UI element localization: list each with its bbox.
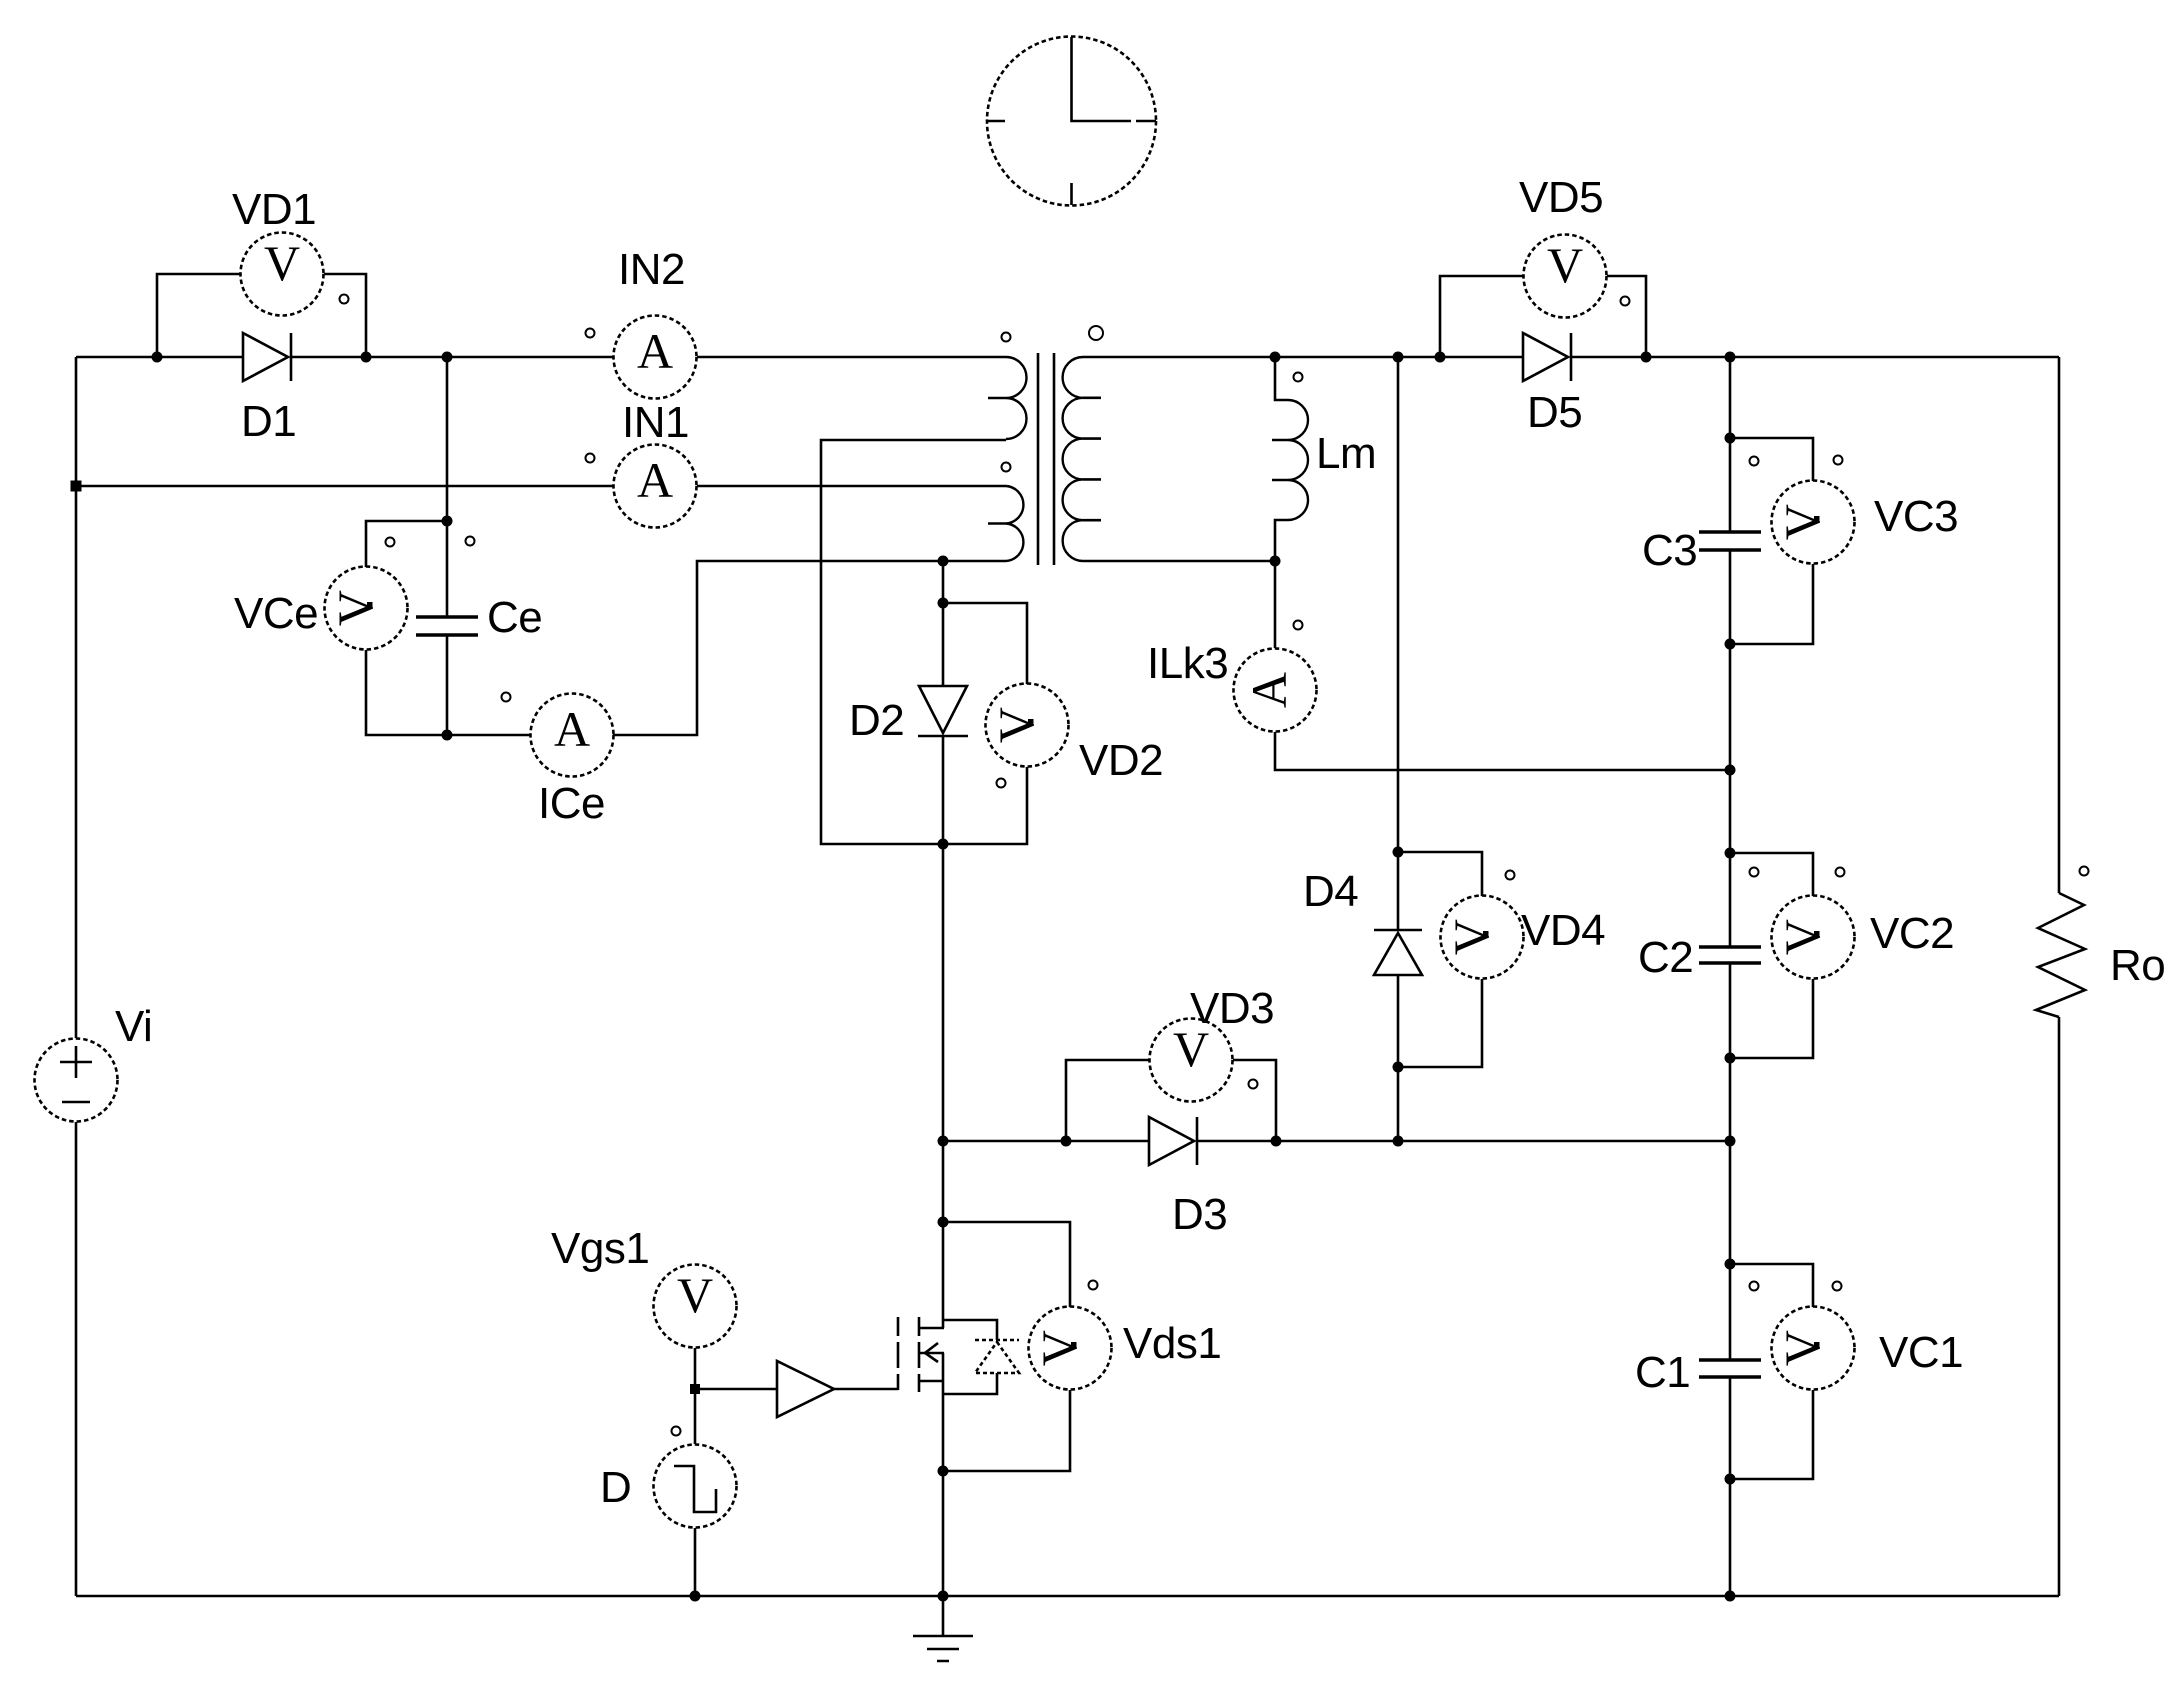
svg-text:D1: D1 [241,397,296,446]
wire VD1 loop left [157,274,240,357]
wire Lm bottom to ILk3 [1274,561,1277,648]
svg-text:Vi: Vi [115,1002,152,1051]
transistor Q1 arrow [925,1343,938,1362]
wire D2 column top [942,561,945,686]
node marker VD2 [997,779,1006,788]
wire IN1 to transformer primary2 [697,485,1006,488]
svg-text:V: V [264,235,300,291]
svg-text:IN2: IN2 [618,245,685,294]
diode D5 anode lead [1440,356,1523,359]
svg-text:Vds1: Vds1 [1123,1319,1221,1368]
wire Vi bottom to bottom rail [75,1122,78,1596]
node marker Ro [2080,867,2089,876]
wire C3 bottom [1729,550,1732,947]
wire top rail left segment [76,356,157,359]
transformer T1 secondary ticks [1083,398,1101,520]
capacitor C3 bottom plate [1699,548,1761,551]
wire driver to gate [834,1388,898,1391]
capacitor Ce bottom plate [416,633,478,636]
node marker VCe [386,538,395,547]
ammeter ICe circle [531,694,614,777]
svg-text:C3: C3 [1642,526,1697,575]
glyph V of Vds1 rotated [1031,1330,1087,1366]
svg-text:ILk3: ILk3 [1147,639,1228,688]
inductor Lm top lead [1275,357,1288,400]
svg-text:VCe: VCe [234,589,318,638]
wire VD4 loop top [1398,852,1482,896]
svg-text:V: V [677,1267,713,1323]
wire secondary top lead [1083,356,1275,359]
svg-text:A: A [554,701,590,757]
diode D1 cathode bar [290,333,293,381]
wire Vds1 loop top [943,1222,1070,1307]
wire VD4 loop bottom [1398,979,1482,1067]
voltmeter VD3 circle [1150,1019,1233,1102]
clock hands [1072,37,1132,121]
capacitor C2 top plate [1699,945,1761,948]
voltmeter VD1 circle [241,233,324,316]
node marker VD4 [1506,871,1515,880]
wire VCe loop bottom [366,650,447,735]
diode D3 cathode bar [1196,1117,1199,1165]
glyph V dot of Vds1 [1071,1342,1077,1348]
svg-text:V: V [1774,1330,1830,1366]
wire Ce bottom [446,637,449,736]
diode D5 triangle [1523,333,1568,381]
transistor Q1 source stub bottom [919,1380,944,1383]
wire IN2 to transformer primary1 [697,356,1006,359]
wire C1 bottom [1729,1377,1732,1596]
svg-text:VC3: VC3 [1874,492,1958,541]
transistor Q1 body diode branch bottom [943,1373,997,1394]
inductor Lm coil arcs [1288,400,1308,520]
voltmeter Vgs1 circle [654,1265,737,1348]
capacitor C2 bottom plate [1699,961,1761,964]
node marker primary1 [1002,333,1011,342]
svg-text:A: A [637,452,673,508]
svg-text:A: A [637,323,673,379]
svg-text:Vgs1: Vgs1 [551,1224,649,1273]
capacitor Ce top plate [416,615,478,618]
svg-text:VD1: VD1 [232,185,316,234]
diode D1 anode lead [157,356,243,359]
transformer T1 core lines [1038,353,1054,565]
glyph V dot of VCe [367,602,373,608]
wire Vgs1 to gate node [694,1348,697,1389]
svg-text:VD5: VD5 [1519,173,1603,222]
diode D5 cathode lead [1571,356,1646,359]
junction dots Ce branch [442,516,453,741]
node square gate [690,1384,700,1394]
transistor Q1 body diode cathode bar [975,1339,1019,1342]
diode D2 cathode bar [918,735,968,738]
capacitor C3 top plate [1699,530,1761,533]
transistor Q1 drain stub [919,1327,944,1330]
diode D4 triangle [1374,933,1422,975]
svg-text:ICe: ICe [538,779,605,828]
transistor Q1 gate bar [897,1317,900,1390]
capacitor C1 top plate [1699,1358,1761,1361]
wire top rail D5 to right corner [1646,356,2059,359]
junction dot Lm bottom [1270,556,1281,567]
svg-text:VC1: VC1 [1879,1328,1963,1377]
transformer T1 primary2 winding arcs [1006,486,1023,561]
ammeter IN2 circle [614,316,697,399]
glyph V dot of VC1 [1814,1342,1820,1348]
svg-text:V: V [1774,504,1830,540]
wire Ro bottom to bottom rail [2058,1017,2061,1596]
ammeter IN1 circle [614,445,697,528]
svg-text:D3: D3 [1172,1190,1227,1239]
wire gate node to D source [694,1389,697,1444]
wire D4 anode down [1397,975,1400,1141]
voltmeter Vds1 circle [1029,1307,1112,1390]
glyph V dot of VC3 [1814,516,1820,522]
node marker VD3 [1249,1080,1258,1089]
glyph V of VC2 rotated [1774,919,1830,955]
transistor Q1 drain lead [942,1141,945,1328]
svg-text:V: V [988,707,1044,743]
transistor Q1 source lead [942,1353,945,1596]
source Vi minus sign [62,1101,90,1104]
wire Vds1 loop bottom [943,1390,1070,1471]
node marker IN2 [586,329,595,338]
glyph V of VD4 rotated [1443,919,1499,955]
source D circle [654,1445,737,1528]
diode D2 triangle [919,686,967,733]
clock ticks [987,121,1156,205]
glyph A of ILk3 rotated [1241,672,1297,708]
voltmeter VD2 circle [986,684,1069,767]
inductor Lm ticks [1272,440,1288,480]
wire bottom rail [76,1595,2059,1598]
transformer T1 primary1 tick [988,397,1006,400]
svg-text:IN1: IN1 [622,398,689,447]
svg-text:C2: C2 [1638,933,1693,982]
voltmeter VC1 circle [1772,1307,1855,1390]
node marker primary2 [1002,463,1011,472]
node marker VC1 [1833,1282,1842,1291]
node marker VC2 [1836,868,1845,877]
wire ICe to winding bottom [613,561,1006,735]
wire Ce column vertical [446,357,449,616]
source Vi circle [35,1039,118,1122]
transformer T1 secondary winding arcs [1063,357,1083,561]
wire VD2 loop top [943,603,1027,684]
node marker VD5 [1621,297,1630,306]
wire C2 bottom [1729,963,1732,1360]
wire C column from rail [1729,357,1732,532]
wire Ce to ICe [447,734,531,737]
wire gate node to driver [695,1388,777,1391]
transformer T1 primary2 tick [988,522,1006,525]
svg-text:V: V [327,590,383,626]
wire VC1 loop bottom [1730,1390,1813,1479]
glyph V of VC3 rotated [1774,504,1830,540]
diode D5 cathode bar [1570,333,1573,381]
node marker C3 left [1750,457,1759,466]
svg-text:Ro: Ro [2110,941,2165,990]
wire top rail D1 to IN2 [366,356,613,359]
wire right rail down to Ro [2058,357,2061,893]
glyph V of VD2 rotated [988,707,1044,743]
node marker secondary [1089,326,1103,340]
wire VD5 loop left [1440,276,1524,357]
junction dots D2 column [938,556,949,1602]
wire D4 column from rail [1397,357,1400,930]
voltmeter VC3 circle [1772,481,1855,564]
inductor Lm bottom lead [1275,520,1288,561]
svg-text:C1: C1 [1635,1348,1690,1397]
wire IN1 rail [76,485,613,488]
wire left rail vertical (top rail corner down to Vi top) [75,357,78,1038]
svg-text:Lm: Lm [1316,429,1376,478]
glyph V of VCe rotated [327,590,383,626]
wire VC2 loop top [1730,853,1813,896]
node square left rail [71,481,82,492]
wire top rail Lm to D4 column [1275,356,1440,359]
capacitor C1 bottom plate [1699,1375,1761,1378]
voltmeter VCe circle [325,567,408,650]
svg-text:Ce: Ce [487,593,542,642]
wire D to bottom rail [694,1528,697,1596]
node marker C2 left [1750,868,1759,877]
svg-text:VC2: VC2 [1870,909,1954,958]
wire VC2 loop bottom [1730,979,1813,1058]
node marker IN1 [586,454,595,463]
wire D2 cathode down [942,736,945,1141]
voltmeter VC2 circle [1772,896,1855,979]
wire VD5 loop right [1607,276,1646,357]
glyph V dot of VC2 [1814,931,1820,937]
wire VD3 loop right [1233,1060,1276,1141]
diode D1 cathode lead [291,356,366,359]
wire secondary bottom lead [1083,560,1275,563]
svg-text:V: V [1547,237,1583,293]
svg-text:VD4: VD4 [1521,906,1605,955]
voltmeter VD5 circle [1524,235,1607,318]
node marker Ce [466,537,475,546]
node marker ILk3 [1294,621,1303,630]
transformer T1 primary1 winding arcs [1006,357,1027,439]
clock circle [987,37,1156,206]
wire VC1 loop top [1730,1264,1813,1307]
svg-text:V: V [1774,919,1830,955]
junction dots D4 column [1393,847,1404,1073]
source Vi plus sign [60,1046,92,1078]
svg-text:D5: D5 [1527,388,1582,437]
glyph V dot of VD4 [1483,931,1489,937]
transistor Q1 body diode triangle [975,1342,1019,1373]
wire D3 row right [1197,1140,1730,1143]
node marker VC3 [1834,456,1843,465]
svg-text:V: V [1031,1330,1087,1366]
transistor Q1 body diode branch top [943,1320,997,1340]
svg-text:A: A [1241,672,1297,708]
source D squarewave glyph [674,1466,716,1512]
junction dots C column [1725,433,1736,1602]
wire primary1 bottom lead to left drop [821,440,1006,844]
transistor Q1 source stub middle [919,1352,944,1355]
glyph V of VC1 rotated [1774,1330,1830,1366]
ground [913,1596,973,1661]
gate driver U1 triangle [777,1361,834,1417]
glyph V dot of VD2 [1028,719,1034,725]
wire VCe loop top [366,521,447,567]
svg-text:D: D [600,1463,631,1512]
wire ILk3 bottom to C column [1275,732,1730,770]
wire VD1 loop right [324,274,366,357]
diode D3 triangle [1149,1117,1194,1165]
wire VC3 loop bottom [1730,564,1813,644]
node marker C1 left [1750,1282,1759,1291]
node marker VD1 [340,295,349,304]
diode D4 cathode bar [1374,929,1422,932]
transistor Q1 channel bar [918,1317,921,1392]
junction dots top rail [152,352,1736,363]
resistor Ro zigzag [2036,893,2085,1017]
node marker Lm [1294,373,1303,382]
node marker Vds1 [1089,1281,1098,1290]
node marker ICe [502,693,511,702]
svg-text:D4: D4 [1303,867,1358,916]
junction dot D source bottom [690,1591,701,1602]
wire VD2 loop bottom [943,767,1027,844]
voltmeter VD4 circle [1441,896,1524,979]
ammeter ILk3 circle [1234,649,1317,732]
wire D3 row left [943,1140,1149,1143]
wire VD3 loop left [1066,1060,1150,1141]
junction dots D3 row [1061,1136,1736,1147]
svg-text:D2: D2 [849,696,904,745]
svg-text:VD2: VD2 [1079,736,1163,785]
node marker D [672,1427,681,1436]
wire VC3 loop top [1730,438,1813,481]
diode D1 triangle [243,333,288,381]
svg-text:VD3: VD3 [1190,984,1274,1033]
svg-text:V: V [1443,919,1499,955]
